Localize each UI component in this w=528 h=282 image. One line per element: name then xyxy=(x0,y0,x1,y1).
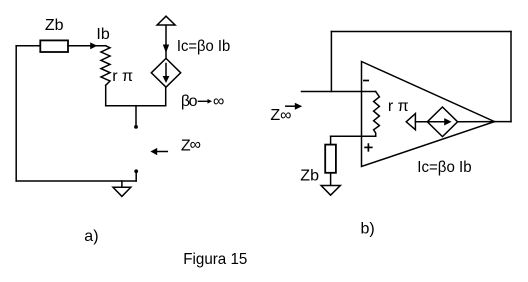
wire: figure a bottom rail xyxy=(16,180,136,182)
wire: stub from emitter rail to open terminal xyxy=(135,106,137,126)
wire: current source top lead xyxy=(165,25,167,58)
ground (figure b) xyxy=(321,186,340,196)
wire: feedback top (figure b) xyxy=(331,31,511,33)
wire: stub from bottom rail to open terminal xyxy=(135,173,137,181)
dependent current source Ic diamond (figure b) xyxy=(427,107,457,137)
svg-text:Zb: Zb xyxy=(300,168,319,185)
svg-text:Zb: Zb xyxy=(45,17,64,34)
svg-text:∞: ∞ xyxy=(213,93,224,110)
wire: non-inverting input xyxy=(331,135,376,137)
label Z infinity with arrow (figure a) xyxy=(155,151,167,153)
svg-text:r π: r π xyxy=(112,68,133,85)
ground (figure a) xyxy=(121,181,123,187)
svg-text:Figura 15: Figura 15 xyxy=(183,251,247,268)
svg-text:Ic=βo Ib: Ic=βo Ib xyxy=(417,159,471,176)
current arrow Ib on wire xyxy=(90,42,97,49)
wire: r-pi bottom to emitter rail xyxy=(105,85,107,105)
arrow inside source (downward) xyxy=(165,64,167,79)
dependent current source Ic diamond (figure a) xyxy=(151,58,180,87)
dependent source open arrow (left-pointing) xyxy=(406,114,415,130)
svg-text:a): a) xyxy=(84,228,98,245)
wire: plus input down to Zb xyxy=(330,136,332,144)
wire: Zb box to node B (base) xyxy=(68,45,106,47)
svg-text:Z∞: Z∞ xyxy=(270,107,291,124)
svg-text:b): b) xyxy=(361,221,375,238)
label minus input xyxy=(364,80,368,82)
label plus input xyxy=(365,146,372,148)
node: open terminal upper dot xyxy=(134,125,138,129)
svg-text:∞: ∞ xyxy=(190,137,201,154)
wire: feedback left vertical xyxy=(330,32,332,92)
wire: figure a left rail (input node to ground rail) xyxy=(15,46,17,181)
wire: left rail to Zb box xyxy=(16,45,40,47)
svg-text:r π: r π xyxy=(388,98,409,115)
wire: inverting input xyxy=(302,91,376,93)
wire: Zb to ground xyxy=(330,173,332,186)
wire: emitter rail up to current source xyxy=(165,87,167,106)
op-amp U1 triangle xyxy=(362,62,495,167)
resistor Zb (figure b, box style) xyxy=(325,145,336,173)
svg-text:Ib: Ib xyxy=(96,26,109,43)
wire: source to op-amp apex xyxy=(458,121,495,123)
svg-text:Ic=βo Ib: Ic=βo Ib xyxy=(177,38,230,55)
arrowhead down into source xyxy=(163,45,169,54)
collector open arrow (up, figure a) xyxy=(157,16,175,25)
resistor r-pi (figure a, zigzag) xyxy=(101,46,110,86)
wire: op-amp output to feedback xyxy=(495,121,512,123)
node: open terminal lower dot xyxy=(134,169,138,173)
svg-text:o: o xyxy=(189,93,198,110)
resistor r-pi (figure b, zigzag) xyxy=(374,92,380,137)
wire: emitter rail of figure a xyxy=(106,105,166,107)
arrow inside source (rightward) xyxy=(415,121,446,123)
wire: feedback right vertical xyxy=(510,32,512,122)
resistor Zb (figure a, box style) xyxy=(40,40,68,52)
